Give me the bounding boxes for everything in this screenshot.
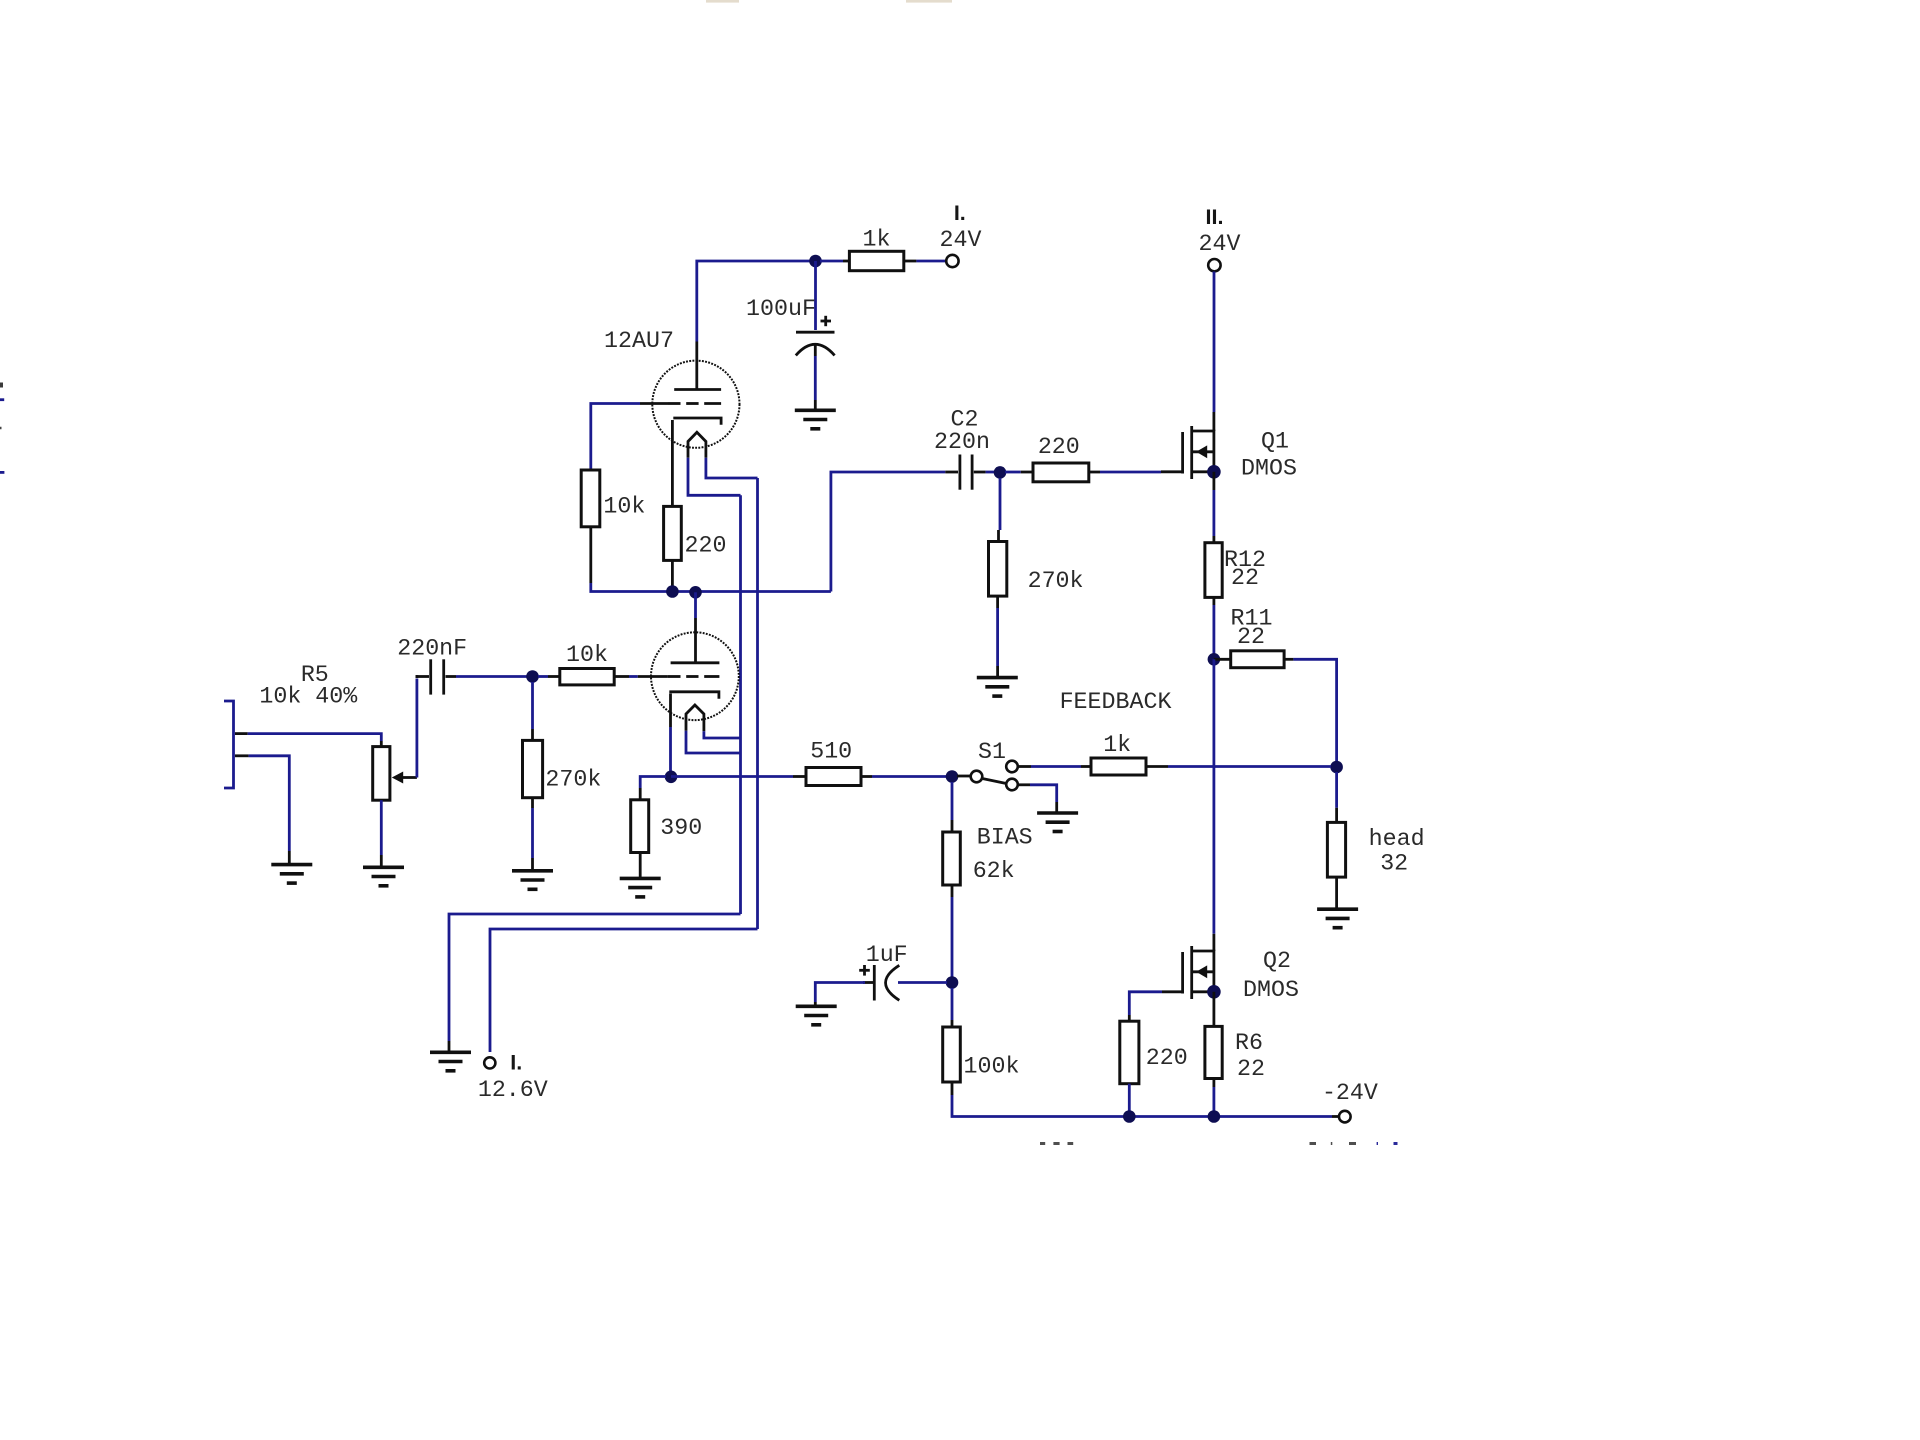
svg-text:24V: 24V [1199,231,1241,257]
head lead [1335,808,1338,823]
heater wire upper-left [688,458,741,496]
resistor 1k (plate load) [849,251,903,270]
node A junction dot [809,255,822,268]
svg-text:270k: 270k [545,767,601,793]
ground (pot) [363,867,404,886]
V1a plate lead [695,342,698,390]
resistor R12 [1205,543,1222,598]
head bottom lead [1335,877,1338,908]
terminal I. 24V [946,255,958,267]
V1a plate bar [674,388,721,391]
resistor 62k [943,832,961,885]
switch S1 throw upper [1006,761,1018,773]
resistor 270k lead [997,530,1000,542]
potentiometer R5 lead [380,741,383,747]
R12 bottom lead [1213,597,1216,605]
resistor 10k (grid stopper) [560,669,614,685]
R11 right lead [1284,658,1293,661]
V1a heater [688,432,706,458]
svg-text:220nF: 220nF [397,636,467,662]
resistor 220 lead [1021,471,1033,474]
wire junction to 220 [1005,471,1021,474]
junction dot [689,586,702,599]
resistor R11 [1231,651,1284,668]
resistor 270k bottom lead [531,798,534,808]
junction dot cathode [665,771,678,784]
resistor 390 [631,800,649,853]
R6 bottom lead [1213,1079,1216,1088]
svg-text:220n: 220n [934,429,990,455]
junction dot rail R6 [1208,1110,1221,1123]
resistor 270k (bias) [989,542,1007,597]
input pin stub 2 [235,754,249,757]
svg-text:220: 220 [1146,1045,1188,1071]
Q2 source dot [1207,985,1221,999]
svg-text:1uF: 1uF [866,942,908,968]
terminal I. 12.6V [484,1057,495,1068]
svg-text:390: 390 [660,815,702,841]
svg-text:BIAS: BIAS [977,825,1033,851]
svg-text:62k: 62k [973,858,1015,884]
wire plate to node [697,261,810,342]
svg-text:22: 22 [1237,1056,1265,1082]
V1a cathode bar [673,418,721,425]
resistor 220 (cathode upper) [664,506,682,560]
transistor Q2 [1162,946,1214,999]
wire node to 100uF [814,261,817,330]
potentiometer wiper arrow [392,772,417,784]
svg-text:I.: I. [510,1051,522,1075]
resistor 10k lead [548,675,560,678]
junction dot feedback [1330,761,1343,774]
Q1 source dot [1207,465,1221,479]
V1a grid (dashed) [640,402,721,405]
svg-text:100uF: 100uF [746,296,816,322]
svg-text:-24V: -24V [1322,1080,1378,1106]
resistor 270k (grid leak) [523,740,543,797]
svg-text:10k 40%: 10k 40% [259,684,357,710]
svg-text:22: 22 [1237,624,1265,650]
wire 10k bottom [589,527,592,583]
resistor right lead [1089,471,1100,474]
resistor head 32 [1327,822,1345,877]
wire 1k to terminal [904,260,946,263]
heater bus B to terminal [490,929,758,1052]
270k ground lead [996,666,999,677]
resistor 220 (gate stopper) [1033,463,1089,482]
svg-text:1k: 1k [1103,732,1131,758]
wire S1 lower to ground [1018,785,1057,802]
switch S1 pole [971,771,983,783]
resistor 1k (feedback) [1091,758,1146,775]
V1b cathode bar [669,692,719,699]
svg-text:32: 32 [1380,851,1408,877]
ground (heater) [430,1052,471,1071]
svg-text:I.: I. [954,201,966,225]
Q1 source lead [1213,472,1216,490]
R12 lead [1213,536,1216,543]
wire 100k to rail [952,1095,1332,1117]
svg-text:DMOS: DMOS [1243,977,1299,1003]
wire junction down to 270k [531,682,534,729]
resistor 270k bottom lead [996,596,999,608]
pot ground lead [380,855,383,867]
junction dot C2 [994,466,1007,479]
ground (270k bias) [977,678,1018,697]
V1b heater [686,705,704,731]
ground (head) [1317,909,1358,928]
1k right lead [1146,765,1168,768]
wire junction down to 270k [999,478,1002,530]
junction dot [666,585,679,598]
wire input gnd [249,756,290,851]
270k ground lead [531,858,534,870]
wire 270k to ground [996,608,999,666]
input ground lead [288,851,291,864]
svg-text:II.: II. [1206,205,1224,229]
wire R11 to head [1293,659,1336,761]
svg-text:100k: 100k [964,1054,1020,1080]
wire wiper to 220nF [415,675,418,777]
wire cathode to junction [669,727,672,777]
terminal II. 24V [1208,259,1220,271]
tube V1a envelope [652,361,739,448]
R11 lead [1214,658,1231,661]
wire junction to 10k [538,675,548,678]
wire source to R12 [1213,490,1216,536]
resistor 510 lead [793,775,806,778]
wire C2 to junction [986,471,995,474]
resistor 220 (Q2 gate) [1120,1021,1139,1083]
tube V1b envelope [651,632,739,720]
svg-text:Q2: Q2 [1263,948,1291,974]
resistor 390 lead [639,788,642,800]
ground (390) [620,878,661,897]
artifact dashes left [1040,1142,1073,1145]
resistor R6 [1205,1026,1222,1078]
wire R6 to rail [1213,1087,1216,1117]
V1b plate lead [694,618,697,663]
ground (S1) [1037,813,1078,832]
62k lead [951,820,954,832]
heater wire upper-right [706,458,758,478]
junction dot grid [526,670,539,683]
ground (under 100uF) [795,410,836,429]
ground (input) [271,865,312,884]
heater bus B [756,478,759,929]
heater bus A [739,495,742,914]
100k bottom lead [951,1082,954,1095]
1uF ground lead [814,1002,817,1006]
svg-text:12AU7: 12AU7 [604,328,674,354]
svg-text:10k: 10k [603,494,645,520]
Q2 source lead [1213,992,1216,1027]
svg-text:270k: 270k [1028,568,1084,594]
output node dot [1208,653,1221,666]
artifact marks left edge [0,400,4,473]
svg-text:Q1: Q1 [1261,429,1289,455]
potentiometer R5 [373,747,390,801]
svg-text:DMOS: DMOS [1241,456,1297,482]
switch S1 throw lower [1006,779,1018,791]
resistor 510 right lead [861,775,872,778]
svg-text:220: 220 [1038,434,1080,460]
input pin stub 1 [235,732,248,735]
wire to grid [629,675,638,678]
wire V1a grid to 10k [591,404,640,471]
heater wire lower-right [704,731,741,738]
V1b grid (dashed) [638,675,720,678]
svg-text:head: head [1369,826,1425,852]
resistor right lead [614,675,629,678]
220 lead [1128,1015,1131,1021]
62k bottom lead [951,885,954,897]
wire S1 upper to 1k [1018,765,1091,768]
terminal -24V [1339,1111,1351,1123]
artifact marks top edge [706,0,739,3]
ground (270k input) [512,871,553,890]
capacitor 1uF [859,965,899,1001]
wire to S1 [957,775,970,778]
wire 270k to ground [531,808,534,858]
wire 1k to feedback node [1168,765,1331,768]
wire output node down to Q2 [1213,659,1216,934]
wire input hot [248,734,382,741]
svg-text:510: 510 [810,739,852,765]
heater ground lead [448,1041,451,1051]
artifact mark black [0,427,2,430]
svg-text:S1: S1 [978,739,1006,765]
svg-text:R6: R6 [1235,1030,1263,1056]
capacitor 220nF [416,659,457,694]
junction dot rail 220 [1123,1110,1136,1123]
wire plate lower [694,592,697,618]
resistor 100k [943,1027,961,1082]
svg-text:12.6V: 12.6V [478,1077,548,1103]
transistor Q1 [1161,412,1214,479]
wire to Q1 gate [1100,471,1161,474]
wire 24V to Q1 drain [1213,272,1216,413]
wire cathode run right to 510 [671,775,793,778]
pot bottom lead [380,800,383,855]
wire 1uF left to ground [815,983,865,1003]
wire node to 1k [820,260,849,263]
svg-text:10k: 10k [566,642,608,668]
resistor 510 [806,768,861,786]
svg-text:220: 220 [685,533,727,559]
wire 62k to bias node [951,897,954,983]
artifact mark dark [0,383,3,388]
Q2 drain lead [1213,934,1216,951]
junction dot S1 [946,770,959,783]
220 bottom lead [1128,1084,1131,1117]
V1b cathode lead [669,694,672,728]
wire node down [1335,772,1338,808]
wire to junction [591,583,831,592]
wire bias node down [951,988,954,1020]
ground (1uF) [796,1006,837,1025]
V1a cathode lead [671,420,674,506]
junction dot bias [946,976,959,989]
capacitor C2 [945,455,985,490]
artifact dashes right [1310,1142,1398,1145]
svg-text:FEEDBACK: FEEDBACK [1060,689,1172,715]
svg-text:1k: 1k [863,227,891,253]
resistor 270k lead [531,729,534,740]
wire junction riser to C2 [831,472,945,592]
wire 220 bottom [671,560,674,591]
svg-text:24V: 24V [940,227,982,253]
wire 220nF to junction [456,675,527,678]
svg-text:22: 22 [1231,565,1259,591]
wire S1 junction down [951,782,954,820]
resistor 390 bottom lead [639,853,642,878]
rail lead to terminal [1332,1115,1339,1118]
S1 ground lead [1055,802,1058,812]
heater bus A to ground [449,914,741,1041]
heater wire lower-left [686,731,741,753]
switch S1 arm [983,779,1006,784]
capacitor 100uF [796,316,835,410]
V1b plate bar [671,661,720,664]
wire 510 to S1 junction [872,775,947,778]
input connector [224,701,234,788]
wire Q2 gate [1129,992,1162,1015]
100k lead [951,1020,954,1027]
wire R12 to node [1213,605,1216,659]
resistor 10k (upper) [581,470,600,527]
wire 1uF right to node [898,981,947,984]
wire cathode run left [640,777,666,789]
